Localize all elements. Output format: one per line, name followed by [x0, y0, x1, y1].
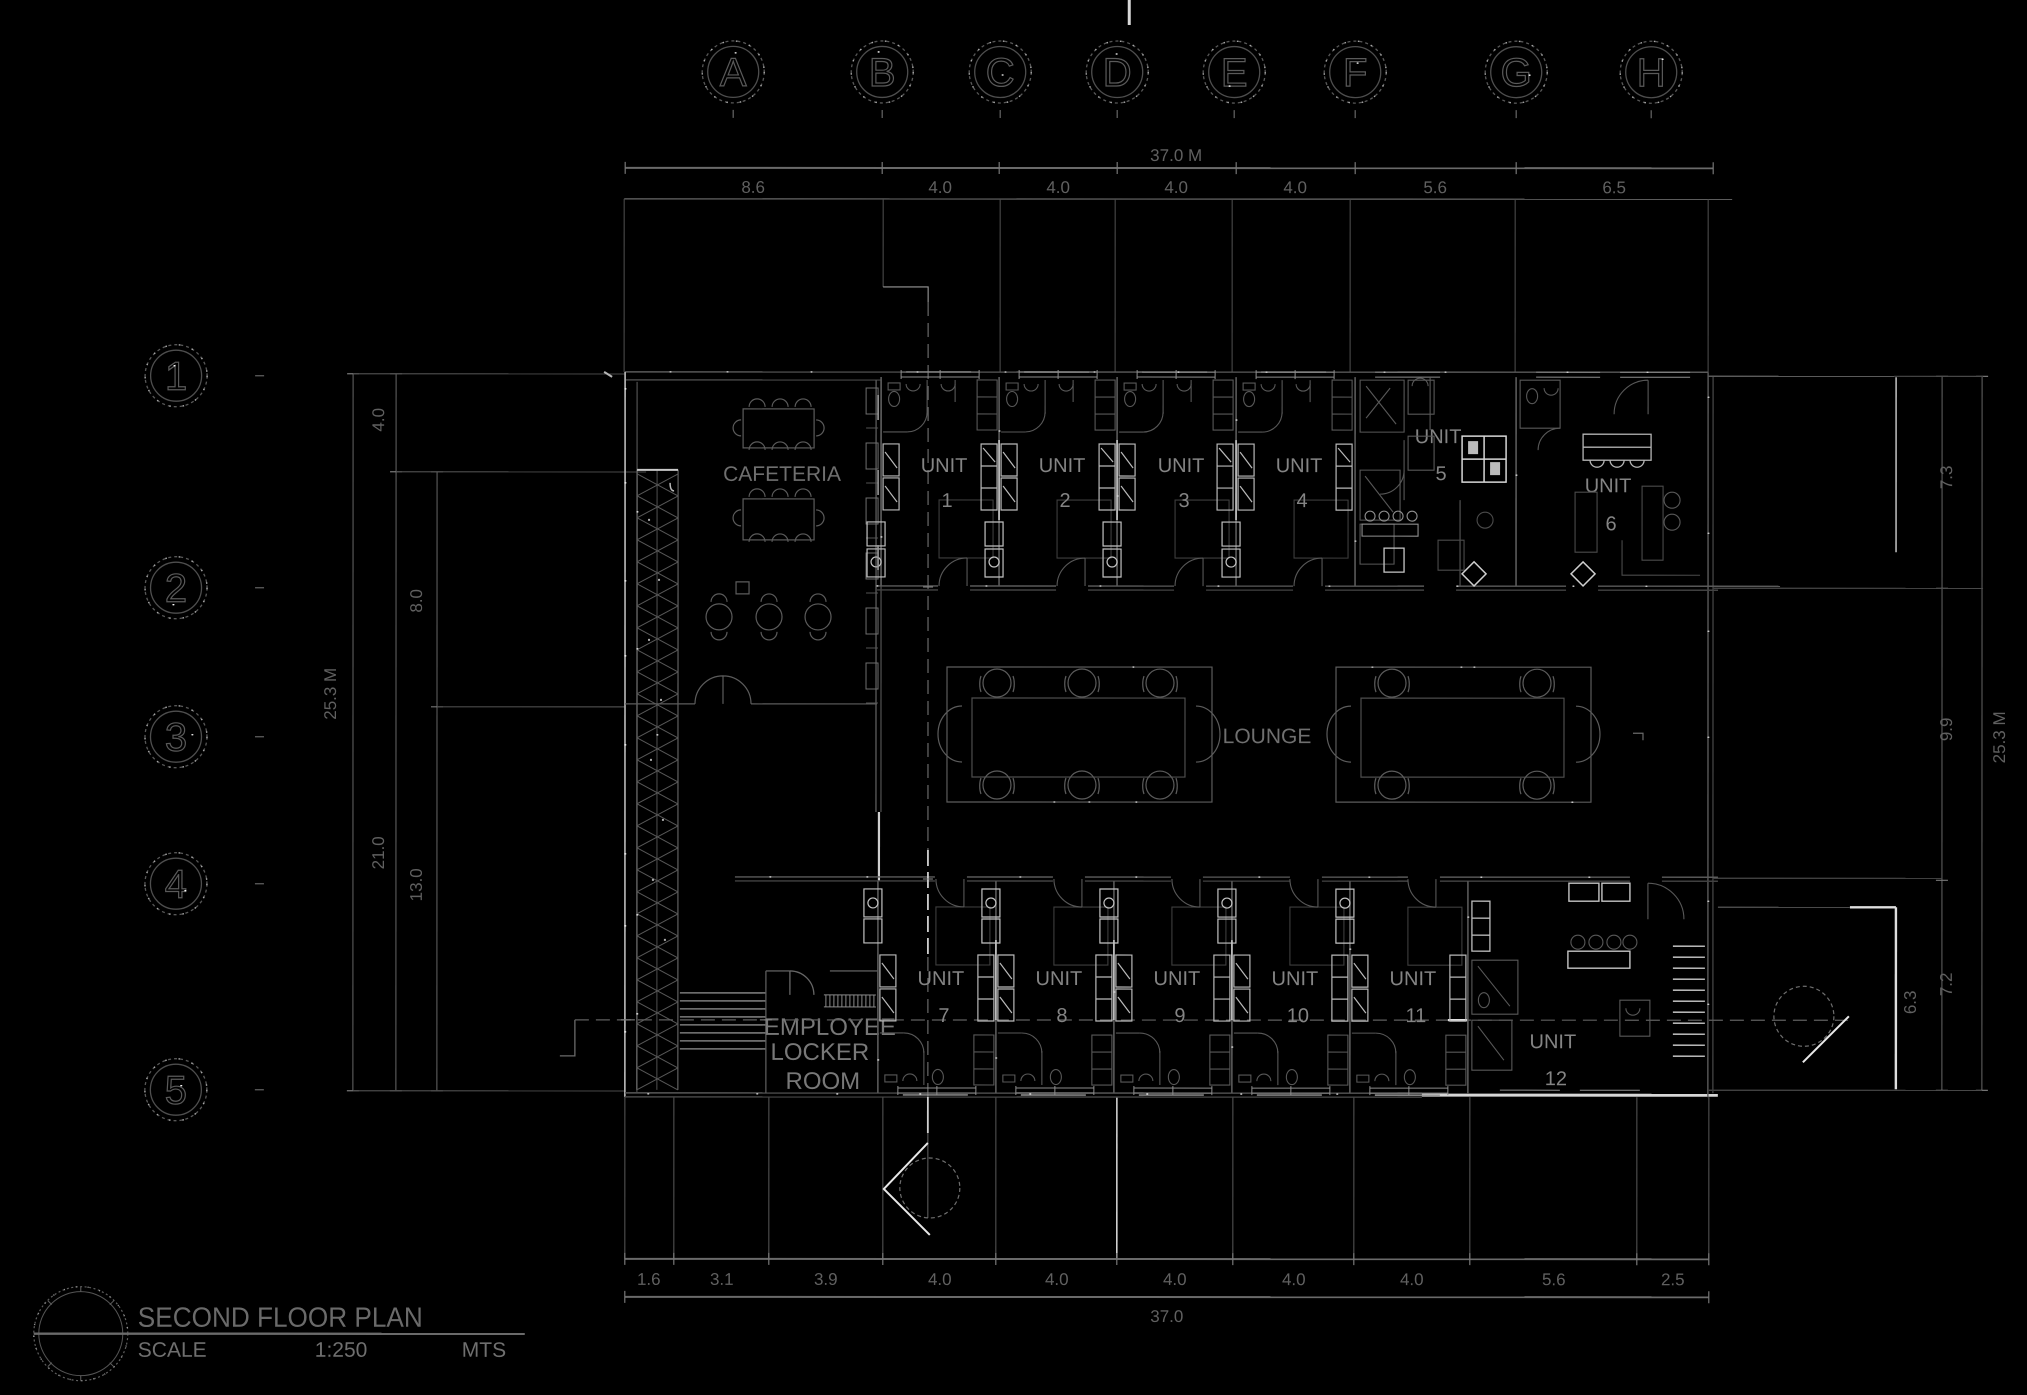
svg-text:SCALE: SCALE — [138, 1339, 207, 1362]
right dim line segments 7.3/9.9/7.2 — [1941, 376, 1943, 1090]
unit module 3 — [1103, 370, 1233, 586]
svg-text:37.0: 37.0 — [1150, 1307, 1183, 1326]
left dim line 2: 4.0 / 21.0 — [395, 374, 397, 1091]
vertical section dash line — [927, 302, 929, 850]
svg-text:7.2: 7.2 — [1937, 973, 1956, 997]
svg-text:4.0: 4.0 — [1046, 178, 1070, 197]
grid bubble B — [851, 41, 913, 118]
svg-text:13.0: 13.0 — [407, 868, 426, 901]
unit 6 closet — [1575, 492, 1597, 552]
svg-text:4.0: 4.0 — [928, 178, 952, 197]
svg-text:21.0: 21.0 — [369, 836, 388, 869]
svg-text:EMPLOYEE: EMPLOYEE — [764, 1014, 896, 1041]
chairs around table 2 — [749, 489, 811, 497]
svg-text:LOUNGE: LOUNGE — [1223, 725, 1312, 748]
stove burners — [1571, 935, 1585, 949]
unit module 8 — [982, 879, 1112, 1095]
unit module 7 — [864, 879, 994, 1095]
bottom dimension line 2 — [625, 1296, 1709, 1298]
left table chairs bottom — [980, 771, 1178, 799]
svg-text:4: 4 — [165, 863, 187, 907]
svg-text:4.0: 4.0 — [1283, 178, 1307, 197]
grid bubble 5 — [145, 1059, 264, 1121]
segment labels — [741, 178, 1626, 197]
svg-text:1: 1 — [165, 355, 187, 399]
svg-text:CAFETERIA: CAFETERIA — [723, 463, 841, 486]
grid bubble H — [1620, 41, 1682, 118]
svg-text:2: 2 — [1060, 490, 1071, 512]
unit module 9 — [1100, 879, 1230, 1095]
left end bracket of section line — [560, 1020, 575, 1056]
left dim line 3: 8.0 / 13.0 — [436, 472, 438, 1091]
scale row — [138, 1339, 506, 1362]
top right balcony — [1708, 375, 1894, 377]
compass tick ring — [39, 1292, 123, 1376]
svg-text:UNIT: UNIT — [921, 455, 968, 477]
svg-text:11: 11 — [1406, 1005, 1427, 1027]
building bottom wall — [625, 1092, 1422, 1094]
unit labels top row — [921, 426, 1632, 535]
svg-text:25.3 M: 25.3 M — [321, 668, 340, 720]
cafeteria right wall — [875, 380, 877, 812]
horizontal section dash line — [575, 1019, 1848, 1021]
svg-text:7: 7 — [938, 1005, 949, 1027]
unit 5 door diamond — [1462, 562, 1486, 586]
stair zigzag hatch — [637, 474, 678, 1090]
svg-text:B: B — [869, 51, 896, 95]
unit module 10 — [1218, 879, 1348, 1095]
svg-text:SECOND FLOOR PLAN: SECOND FLOOR PLAN — [138, 1302, 423, 1333]
svg-text:6.5: 6.5 — [1602, 178, 1626, 197]
main stair rails — [636, 470, 638, 1090]
locker door arc — [790, 971, 814, 995]
unit 6 door diamond — [1571, 562, 1595, 586]
svg-text:5: 5 — [1436, 463, 1447, 485]
svg-text:H: H — [1637, 51, 1666, 95]
employee locker room label — [764, 1014, 896, 1095]
svg-text:E: E — [1221, 51, 1248, 95]
bright partition slivers bottom row — [996, 940, 1232, 1020]
bright partition slivers top row — [999, 440, 1236, 520]
svg-text:1.6: 1.6 — [637, 1270, 661, 1289]
svg-text:C: C — [986, 51, 1015, 95]
cafeteria bottom wall with double door — [625, 703, 695, 705]
unit 5 bath cluster — [1360, 380, 1404, 432]
bottom unit partitions — [878, 881, 1468, 1093]
svg-text:4.0: 4.0 — [928, 1270, 952, 1289]
unit 12 bath — [1472, 960, 1518, 1014]
grid bubble 4 — [145, 853, 264, 915]
svg-text:25.3 M: 25.3 M — [1990, 711, 2009, 763]
unit 5 lower bath — [1360, 470, 1400, 520]
door gaps in top corridor wall — [938, 583, 1598, 592]
svg-text:4.0: 4.0 — [1163, 1270, 1187, 1289]
unit labels bottom row — [918, 968, 1577, 1090]
north compass circle — [34, 1287, 128, 1381]
svg-text:7.3: 7.3 — [1937, 466, 1956, 490]
bottom section arrow chevron — [884, 1143, 930, 1235]
svg-text:A: A — [720, 51, 747, 95]
top units corridor wall — [877, 585, 1718, 587]
svg-text:3: 3 — [165, 716, 187, 760]
extension line below top dim — [624, 198, 1732, 200]
right section diagonal — [1803, 1016, 1849, 1062]
unit module 1 — [867, 370, 997, 586]
lounge left table outer — [947, 667, 1212, 802]
grid bubble D — [1086, 41, 1148, 118]
lounge right table outer — [1336, 667, 1591, 802]
right table chairs — [1375, 669, 1555, 799]
cafeteria table 1 — [743, 409, 814, 448]
left table chairs top — [980, 669, 1178, 697]
svg-text:UNIT: UNIT — [1276, 455, 1323, 477]
locker room stair ladder — [680, 992, 766, 994]
svg-text:5.6: 5.6 — [1423, 178, 1447, 197]
chairs around table 1 — [749, 399, 811, 407]
svg-text:4: 4 — [1297, 490, 1308, 512]
svg-text:3.9: 3.9 — [814, 1270, 838, 1289]
bottom dimension line 1 — [625, 1258, 1709, 1260]
svg-text:5: 5 — [165, 1069, 187, 1113]
top dimension line — [625, 167, 1713, 169]
unit 5 small fixtures — [1438, 540, 1464, 570]
grid bubble 2 — [145, 557, 264, 619]
grid line extensions above building — [623, 199, 625, 372]
grid bubble C — [969, 41, 1031, 118]
unit 12 bath2 — [1472, 1020, 1512, 1070]
building right wall — [1707, 372, 1709, 1097]
svg-text:MTS: MTS — [462, 1339, 506, 1362]
svg-text:1:250: 1:250 — [315, 1339, 368, 1362]
double door arcs — [695, 676, 751, 704]
right table side seats — [1327, 706, 1600, 762]
unit 5 closet bright — [1462, 436, 1506, 482]
svg-text:F: F — [1343, 51, 1367, 95]
svg-text:D: D — [1103, 51, 1132, 95]
svg-text:2: 2 — [165, 567, 187, 611]
building bottom wall bright right portion — [1422, 1094, 1718, 1097]
svg-text:UNIT: UNIT — [1390, 968, 1437, 990]
unit 5 stove — [1362, 511, 1418, 536]
bottom section circle — [900, 1158, 960, 1218]
stair bright speckles — [648, 520, 666, 940]
left dimension line 25.3M — [352, 374, 354, 1091]
right connectors — [1894, 375, 1983, 377]
unit 6 sofa bench — [1583, 434, 1651, 467]
unit module 4 — [1222, 370, 1352, 586]
grid bubble A — [702, 41, 764, 118]
svg-text:8.0: 8.0 — [407, 589, 426, 613]
building left wall — [624, 372, 626, 1097]
small square cabinet — [736, 582, 749, 594]
dim ticks — [625, 162, 1713, 174]
right section circle — [1774, 986, 1834, 1046]
corridor wall bright segment — [878, 812, 880, 881]
svg-text:UNIT: UNIT — [1158, 455, 1205, 477]
bottom segment labels — [637, 1270, 1685, 1289]
lounge right table inner — [1361, 698, 1564, 777]
unit 12 closet bright — [1472, 901, 1490, 951]
grid bubble G — [1485, 41, 1547, 118]
cafeteria table 2 — [743, 499, 814, 540]
unit 6 counter L — [1622, 540, 1700, 575]
grid bubble 3 — [145, 706, 264, 768]
unit 12 wc — [1620, 1000, 1650, 1036]
unit 6 door arc top right — [1614, 380, 1648, 414]
svg-text:12: 12 — [1545, 1068, 1567, 1090]
svg-text:3: 3 — [1179, 490, 1190, 512]
svg-text:5.6: 5.6 — [1542, 1270, 1566, 1289]
svg-text:UNIT: UNIT — [918, 968, 965, 990]
unit 6 side stools — [1664, 492, 1680, 508]
svg-text:4.0: 4.0 — [1400, 1270, 1424, 1289]
white marker line top — [1128, 0, 1131, 25]
svg-text:10: 10 — [1287, 1005, 1309, 1027]
svg-text:9: 9 — [1174, 1005, 1185, 1027]
svg-text:G: G — [1501, 51, 1532, 95]
locker counter hatch — [824, 995, 876, 1007]
svg-text:37.0 M: 37.0 M — [1150, 146, 1202, 165]
svg-text:UNIT: UNIT — [1036, 968, 1083, 990]
right overall dim 25.3 M — [1981, 376, 1983, 1090]
unit module 11 — [1336, 879, 1466, 1095]
hatched vent strip right of unit 12 — [1673, 946, 1705, 1056]
small wall mark right of lounge — [1633, 733, 1643, 740]
grid bubble F — [1324, 41, 1386, 118]
unit module 2 — [985, 370, 1115, 586]
building top outer wall — [625, 371, 1708, 373]
svg-text:6.3: 6.3 — [1901, 990, 1920, 1014]
bottom units corridor wall — [735, 876, 1718, 878]
svg-text:1: 1 — [942, 490, 953, 512]
bright extension line at D — [1116, 1097, 1118, 1259]
round table 3 — [805, 594, 831, 640]
svg-text:3.1: 3.1 — [710, 1270, 734, 1289]
svg-text:8.6: 8.6 — [741, 178, 765, 197]
employee locker room walls — [765, 971, 767, 1093]
svg-text:UNIT: UNIT — [1585, 475, 1632, 497]
svg-text:4.0: 4.0 — [1045, 1270, 1069, 1289]
grid bubble E — [1203, 41, 1265, 118]
door gaps in bottom corridor wall — [935, 874, 1662, 883]
round table 2 — [756, 594, 782, 640]
building top inner wall — [625, 379, 881, 381]
left extension connectors — [353, 373, 625, 375]
svg-text:UNIT: UNIT — [1272, 968, 1319, 990]
svg-text:UNIT: UNIT — [1039, 455, 1086, 477]
svg-text:4.0: 4.0 — [369, 408, 388, 432]
svg-text:8: 8 — [1056, 1005, 1067, 1027]
round table 1 — [706, 594, 732, 640]
svg-text:UNIT: UNIT — [1415, 426, 1462, 448]
svg-text:2.5: 2.5 — [1661, 1270, 1685, 1289]
top unit partitions — [881, 377, 1516, 586]
svg-text:4.0: 4.0 — [1164, 178, 1188, 197]
svg-text:LOCKER: LOCKER — [771, 1039, 870, 1066]
svg-text:6: 6 — [1605, 513, 1616, 535]
lounge left table inner — [972, 698, 1185, 777]
svg-text:ROOM: ROOM — [786, 1068, 861, 1095]
svg-text:4.0: 4.0 — [1282, 1270, 1306, 1289]
unit 6 bath top left — [1520, 380, 1560, 428]
bottom right balcony bright L — [1850, 907, 1896, 1089]
svg-text:UNIT: UNIT — [1530, 1031, 1577, 1053]
section line jog at top — [883, 287, 928, 302]
extension lines below building — [625, 1097, 1709, 1259]
title underline — [34, 1332, 525, 1335]
svg-text:9.9: 9.9 — [1937, 718, 1956, 742]
unit 12 entry door arc — [1648, 883, 1684, 919]
left table side seats — [938, 706, 1220, 762]
grid bubble 1 — [145, 345, 264, 407]
unit 12 kitchen counter bright — [1568, 883, 1630, 968]
svg-text:UNIT: UNIT — [1154, 968, 1201, 990]
